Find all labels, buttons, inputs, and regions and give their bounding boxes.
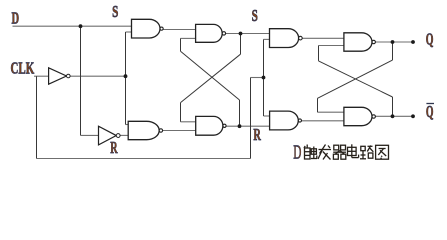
NAND gate G7 bbox=[344, 33, 376, 51]
junction clock tee bbox=[262, 76, 266, 80]
wire clock riser bbox=[250, 78, 252, 159]
wire G6 top input bbox=[264, 115, 270, 117]
wire S net to G5 bbox=[226, 33, 270, 35]
caption glyph tu (diagram) bbox=[376, 145, 389, 159]
NAND gate G2 bbox=[196, 24, 226, 42]
inverter U1 (CLK) bbox=[49, 68, 71, 84]
wire G3 feedback input bbox=[181, 121, 196, 123]
wire G7 feedback drop bbox=[318, 46, 320, 61]
svg-text:R: R bbox=[253, 125, 261, 144]
wire G6 output to G8 bbox=[302, 120, 344, 122]
junction on D wire bbox=[79, 24, 83, 28]
wire CLK branch to bottom run bbox=[36, 76, 38, 158]
wire G1 bottom input bbox=[126, 31, 132, 33]
wire Q output bbox=[375, 41, 413, 43]
wire R net to G6 bbox=[226, 125, 270, 127]
caption glyph lu (road) bbox=[360, 146, 373, 159]
terminal dot Q bbox=[411, 40, 415, 44]
wire G4 top input bbox=[126, 124, 129, 126]
caption glyph chu (touch) bbox=[304, 145, 317, 160]
svg-text:CLK: CLK bbox=[11, 59, 35, 78]
svg-text:R: R bbox=[110, 138, 118, 157]
wire G2 feedback drop bbox=[180, 38, 182, 51]
inverter U2 bbox=[99, 126, 121, 145]
wire CLK input bbox=[34, 75, 49, 77]
svg-text:D: D bbox=[293, 141, 301, 163]
wire G1 output to G2 bbox=[163, 29, 195, 31]
caption glyph dian (electric) bbox=[348, 144, 359, 157]
svg-text:Q: Q bbox=[426, 102, 434, 121]
NAND gate G4 bbox=[128, 121, 162, 139]
junction on Q wire bbox=[391, 40, 395, 44]
wire CLK-bar vertical bbox=[125, 32, 127, 125]
NAND gate G6 bbox=[270, 111, 302, 130]
wire G2 feedback input bbox=[181, 37, 196, 39]
wire X2 into Q-bar junction bbox=[392, 97, 394, 116]
wire cross diagonal Q-drop to G8 bbox=[318, 60, 393, 98]
wire G4 output to G3 bbox=[163, 130, 196, 132]
caption glyph fa (emit) bbox=[318, 145, 331, 160]
NAND gate G8 bbox=[344, 107, 376, 125]
NAND gate G5 bbox=[270, 29, 303, 48]
NAND gate G1 bbox=[132, 19, 164, 38]
wire U2 input bbox=[81, 134, 99, 136]
wire G5 bottom input bbox=[264, 38, 270, 40]
wire inverter U1 output bbox=[70, 75, 125, 77]
wire S junction drop bbox=[240, 34, 242, 55]
wire cross diagonal G2fb to R-junction bbox=[181, 51, 240, 100]
wire cross diagonal G7fb to Q-bar junction bbox=[319, 61, 393, 97]
NAND gate G3 bbox=[196, 116, 226, 135]
wire G5 output to G7 bbox=[302, 37, 344, 39]
wire G7 feedback input bbox=[319, 45, 344, 47]
wire clock mid vertical bbox=[263, 39, 265, 116]
wire bottom clock run bbox=[37, 158, 251, 160]
wire X2 into G8 input bbox=[317, 98, 319, 112]
wire X1 into R junction bbox=[239, 100, 241, 126]
wire D branch down bbox=[80, 26, 82, 135]
terminal dot Q-bar bbox=[411, 114, 415, 118]
wire clock branch horizontal bbox=[251, 77, 264, 79]
junction on Q-bar wire bbox=[391, 114, 395, 118]
overbar of Q-bar label bbox=[426, 103, 434, 105]
svg-text:Q: Q bbox=[426, 30, 434, 49]
svg-text:D: D bbox=[12, 9, 20, 28]
junction node R bbox=[238, 124, 242, 128]
wire D input bbox=[13, 25, 132, 27]
wire Q-bar output bbox=[375, 115, 413, 117]
svg-text:S: S bbox=[112, 2, 118, 21]
wire G8 feedback input bbox=[318, 111, 344, 113]
wire cross diagonal S-drop to G3 bbox=[181, 54, 241, 102]
caption glyph qi (device) bbox=[333, 145, 346, 159]
wire Q junction drop bbox=[392, 42, 394, 60]
junction on CLK-bar wire bbox=[124, 74, 128, 78]
wire X1 into G3 input bbox=[180, 103, 182, 122]
svg-text:S: S bbox=[252, 6, 258, 25]
wire inverter U2 output to G4 bbox=[120, 134, 128, 136]
junction node S bbox=[239, 32, 243, 36]
